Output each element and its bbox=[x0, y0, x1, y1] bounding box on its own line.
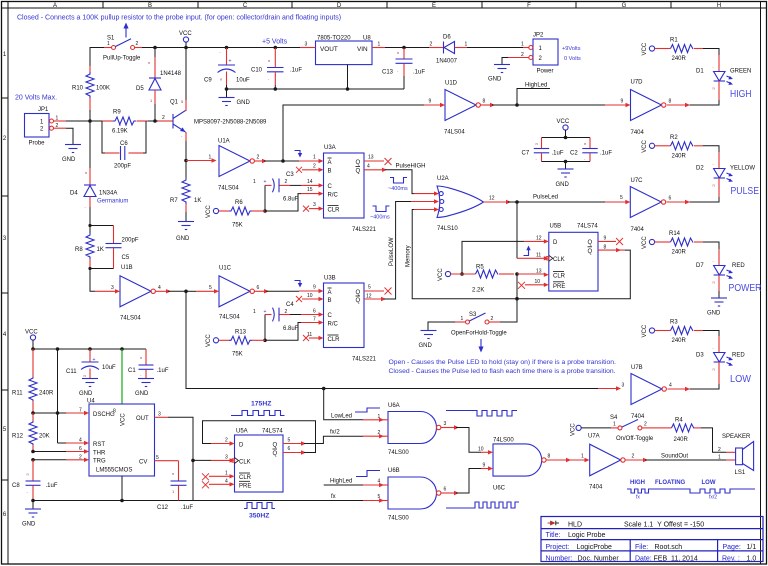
svg-text:~400ms: ~400ms bbox=[370, 215, 390, 221]
wire U1A out up and to U1D input bbox=[283, 105, 424, 161]
svg-text:GND: GND bbox=[176, 236, 190, 242]
svg-text:VCC: VCC bbox=[179, 31, 192, 37]
svg-text:Q: Q bbox=[356, 290, 361, 296]
svg-text:+: + bbox=[264, 179, 267, 185]
waveform 175HZ bbox=[231, 411, 285, 416]
svg-text:74LS74: 74LS74 bbox=[262, 429, 283, 435]
svg-text:fx/2: fx/2 bbox=[330, 430, 340, 436]
svg-text:6: 6 bbox=[288, 446, 291, 452]
wire S1 pin1 to R10 top bbox=[90, 48, 111, 72]
svg-text:Probe: Probe bbox=[29, 141, 46, 147]
svg-text:2: 2 bbox=[79, 454, 82, 460]
svg-text:0 Volts: 0 Volts bbox=[564, 56, 581, 62]
svg-text:4: 4 bbox=[158, 285, 161, 291]
inverter U7D 7404 bbox=[621, 80, 672, 137]
svg-text:200pF: 200pF bbox=[122, 238, 139, 244]
wire C3 pin2 to U3A pin C bbox=[290, 184, 301, 186]
power flag VCC at 555 bbox=[25, 330, 38, 350]
resistor R13 75K bbox=[219, 330, 265, 358]
svg-text:7404: 7404 bbox=[631, 227, 645, 233]
junction R5 to CLR bbox=[515, 272, 519, 276]
svg-text:R1: R1 bbox=[670, 38, 678, 44]
svg-text:1: 1 bbox=[378, 414, 381, 420]
ground under C8 bbox=[22, 501, 41, 528]
svg-text:Q1: Q1 bbox=[170, 100, 179, 106]
no-connect X at U5B PRE bbox=[518, 282, 525, 289]
svg-text:6: 6 bbox=[313, 309, 316, 315]
wire 7805 gnd pin down bbox=[347, 65, 349, 89]
svg-text:GND: GND bbox=[707, 311, 721, 317]
svg-text:1: 1 bbox=[613, 422, 616, 428]
svg-text:74LS00: 74LS00 bbox=[388, 516, 409, 522]
svg-text:74LS00: 74LS00 bbox=[388, 450, 409, 456]
svg-text:1.0: 1.0 bbox=[747, 555, 757, 562]
svg-text:U7C: U7C bbox=[631, 178, 644, 184]
svg-text:C2: C2 bbox=[570, 151, 578, 157]
svg-text:1: 1 bbox=[253, 309, 256, 315]
wire U5A Q to fx/2 bbox=[283, 443, 303, 445]
wire U3B Qbar to U2A pin2 bbox=[364, 298, 383, 300]
net label HighLed bbox=[517, 83, 550, 106]
ground under C7/C2 bbox=[556, 162, 574, 189]
svg-text:240R: 240R bbox=[39, 391, 54, 397]
resistor R10 bbox=[72, 66, 110, 112]
diode D5 1N4148 bbox=[136, 48, 182, 122]
svg-text:Q: Q bbox=[356, 298, 361, 304]
svg-text:4: 4 bbox=[669, 383, 672, 389]
svg-text:H: H bbox=[717, 3, 721, 9]
wire PulseLed into U7C bbox=[605, 201, 627, 203]
wire into U7D input bbox=[605, 104, 627, 106]
resistor R4 240R bbox=[656, 418, 701, 444]
wire THR bbox=[31, 450, 35, 454]
svg-text:VCC: VCC bbox=[642, 42, 648, 55]
junction C13 top bbox=[402, 46, 406, 50]
svg-text:R6: R6 bbox=[235, 200, 243, 206]
svg-text:9: 9 bbox=[313, 285, 316, 291]
power flag VCC at S4 bbox=[571, 423, 582, 436]
svg-text:1/1: 1/1 bbox=[747, 544, 757, 551]
timer U4 LM555CMOS bbox=[79, 399, 179, 477]
svg-text:9: 9 bbox=[429, 99, 432, 105]
svg-text:B: B bbox=[148, 3, 152, 9]
resistor R9 bbox=[102, 110, 148, 135]
svg-text:GND: GND bbox=[135, 391, 149, 397]
svg-text:C13: C13 bbox=[382, 70, 394, 76]
svg-text:175HZ: 175HZ bbox=[251, 401, 271, 408]
svg-text:n: n bbox=[397, 50, 399, 55]
svg-text:6: 6 bbox=[669, 196, 672, 202]
svg-text:.1uF: .1uF bbox=[600, 151, 612, 157]
svg-text:LOW: LOW bbox=[702, 480, 716, 486]
svg-text:6: 6 bbox=[444, 487, 447, 493]
svg-text:3: 3 bbox=[305, 42, 308, 48]
svg-text:10uF: 10uF bbox=[236, 78, 250, 84]
svg-text:VCC: VCC bbox=[438, 268, 444, 281]
power flag VCC at R5 bbox=[438, 268, 451, 281]
capacitor C3 6.8uF bbox=[253, 172, 299, 203]
svg-text:HighLed: HighLed bbox=[330, 479, 352, 485]
svg-text:B: B bbox=[328, 169, 332, 175]
svg-text:10: 10 bbox=[478, 446, 484, 452]
svg-text:6.8uF: 6.8uF bbox=[283, 197, 299, 203]
svg-text:+: + bbox=[229, 59, 232, 65]
svg-text:1: 1 bbox=[253, 179, 256, 185]
svg-text:12: 12 bbox=[536, 236, 542, 242]
power flag VCC at R13 bbox=[206, 334, 219, 347]
junction gnd rail bbox=[225, 87, 229, 91]
diode D4 1N34A bbox=[70, 168, 128, 209]
svg-text:240R: 240R bbox=[674, 437, 689, 443]
resistor R14 240R bbox=[655, 231, 703, 256]
wire gnd rail under regulator bbox=[227, 88, 405, 90]
svg-text:Closed - Causes the Pulse led: Closed - Causes the Pulse led to flash e… bbox=[389, 368, 616, 375]
svg-text:D7: D7 bbox=[696, 263, 704, 269]
inverter U7C 7404 bbox=[630, 178, 671, 233]
switch S1 bbox=[103, 36, 142, 62]
ground under C9 bbox=[219, 89, 251, 106]
svg-text:6.19K: 6.19K bbox=[112, 129, 128, 135]
svg-text:CLK: CLK bbox=[239, 459, 251, 465]
svg-text:4: 4 bbox=[225, 478, 228, 484]
svg-text:Number:: Number: bbox=[546, 555, 573, 562]
svg-text:2: 2 bbox=[632, 454, 635, 460]
wire emitter node to U1A bbox=[186, 160, 213, 162]
svg-text:A: A bbox=[328, 160, 332, 166]
svg-text:75K: 75K bbox=[232, 223, 243, 229]
junction VCC rail bbox=[184, 46, 188, 50]
svg-text:.1uF: .1uF bbox=[552, 151, 564, 157]
no-connect X at U3A CLR bbox=[303, 206, 309, 212]
wire 555 gnd pin down bbox=[121, 476, 123, 501]
svg-text:VOUT: VOUT bbox=[320, 46, 338, 53]
svg-text:Memory: Memory bbox=[406, 245, 412, 267]
svg-text:DSCHG: DSCHG bbox=[93, 412, 115, 418]
svg-text:Logic Probe: Logic Probe bbox=[568, 532, 605, 539]
wire bottom rail bbox=[33, 500, 193, 502]
svg-text:74LS04: 74LS04 bbox=[219, 315, 240, 321]
svg-text:350HZ: 350HZ bbox=[249, 513, 269, 520]
svg-text:9: 9 bbox=[483, 463, 486, 469]
resistor R2 240R bbox=[655, 135, 703, 160]
svg-text:Q: Q bbox=[588, 240, 593, 246]
svg-text:2: 2 bbox=[491, 316, 494, 322]
svg-text:74LS221: 74LS221 bbox=[352, 227, 377, 233]
svg-text:VIN: VIN bbox=[357, 46, 368, 53]
capacitor C11 10uF bbox=[66, 349, 116, 378]
svg-text:10: 10 bbox=[307, 293, 313, 299]
svg-text:Power: Power bbox=[537, 69, 554, 75]
gate U6A 74LS00 bbox=[382, 403, 447, 456]
svg-text:74LS00: 74LS00 bbox=[493, 438, 514, 444]
svg-text:CLR: CLR bbox=[328, 208, 341, 214]
svg-text:n: n bbox=[713, 280, 715, 285]
svg-text:74LS221: 74LS221 bbox=[352, 357, 377, 363]
ground under D7 bbox=[707, 291, 727, 317]
svg-text:LOW: LOW bbox=[730, 374, 751, 385]
svg-text:C6: C6 bbox=[120, 141, 128, 147]
svg-text:D2: D2 bbox=[696, 166, 704, 172]
wire down to S3 pin2 bbox=[500, 274, 517, 322]
svg-text:CV: CV bbox=[139, 459, 147, 465]
svg-text:7: 7 bbox=[79, 408, 82, 414]
svg-text:SPEAKER: SPEAKER bbox=[722, 434, 751, 440]
svg-text:2: 2 bbox=[718, 447, 721, 453]
svg-text:n: n bbox=[713, 183, 715, 188]
net fx to U6B pin5 bbox=[193, 500, 363, 502]
svg-text:PULSE: PULSE bbox=[731, 186, 760, 197]
svg-text:Title:: Title: bbox=[546, 532, 561, 539]
wire CLK to U5A bbox=[193, 459, 211, 461]
svg-text:7: 7 bbox=[313, 317, 316, 323]
waveform at U6B bbox=[446, 502, 519, 508]
no-connect X at U5A CLR bbox=[202, 473, 209, 480]
svg-text:5: 5 bbox=[209, 285, 212, 291]
svg-text:U2A: U2A bbox=[437, 176, 449, 182]
svg-text:14: 14 bbox=[307, 179, 313, 185]
svg-text:D1: D1 bbox=[696, 69, 704, 75]
svg-text:10uF: 10uF bbox=[102, 365, 116, 371]
wire C7/C2 bottom rail bbox=[542, 161, 591, 163]
svg-text:fx: fx bbox=[636, 495, 640, 501]
no-connect X at U5B Q bbox=[598, 240, 616, 242]
svg-text:MPS8097-2N5088-2N5089: MPS8097-2N5088-2N5089 bbox=[194, 120, 267, 126]
svg-text:4: 4 bbox=[367, 164, 370, 170]
capacitor C7 .1uF bbox=[522, 138, 564, 162]
svg-text:1N4148: 1N4148 bbox=[160, 71, 182, 77]
svg-text:PRE: PRE bbox=[239, 483, 251, 489]
svg-text:Q: Q bbox=[273, 442, 278, 448]
capacitor C1 .1uF bbox=[128, 349, 169, 378]
gate U6B 74LS00 bbox=[382, 468, 447, 522]
svg-text:6.8uF: 6.8uF bbox=[283, 326, 299, 332]
svg-text:HIGH: HIGH bbox=[730, 89, 752, 100]
power flag VCC top bbox=[179, 31, 192, 48]
wire U7A out SoundOut to speaker bbox=[625, 459, 645, 461]
inverter U1C 74LS04 bbox=[209, 266, 260, 321]
svg-text:1: 1 bbox=[209, 155, 212, 161]
flipflop U5A 74LS74 bbox=[225, 429, 291, 493]
svg-text:R11: R11 bbox=[12, 391, 23, 397]
LED D7 bbox=[696, 249, 745, 291]
wire U6C out to U7A bbox=[546, 459, 568, 461]
svg-text:1N4007: 1N4007 bbox=[436, 59, 458, 65]
svg-text:4: 4 bbox=[79, 438, 82, 444]
svg-text:VCC: VCC bbox=[25, 330, 38, 336]
wire R4 to speaker pin2 bbox=[701, 428, 726, 452]
svg-text:2: 2 bbox=[313, 164, 316, 170]
svg-text:3: 3 bbox=[225, 455, 228, 461]
svg-text:+9Volts: +9Volts bbox=[562, 46, 581, 52]
wire probe node down to D4 bbox=[89, 121, 91, 168]
svg-text:CLR: CLR bbox=[328, 337, 341, 343]
svg-text:GND: GND bbox=[556, 182, 570, 188]
svg-text:LowLed: LowLed bbox=[331, 413, 352, 419]
svg-text:15: 15 bbox=[307, 187, 313, 193]
arrow below S3 bbox=[478, 339, 483, 353]
svg-text:F: F bbox=[527, 3, 531, 9]
power flag VCC at R14 bbox=[642, 236, 655, 249]
svg-text:Q: Q bbox=[356, 160, 361, 166]
resistor R12 20K bbox=[12, 413, 50, 452]
svg-text:n: n bbox=[584, 141, 586, 146]
svg-text:C11: C11 bbox=[66, 369, 77, 375]
wire C3 pin1 down to R6 node bbox=[264, 185, 266, 211]
speaker LS1 bbox=[718, 434, 754, 476]
svg-text:VCC: VCC bbox=[206, 334, 212, 347]
wire PulseHIGH into U2A pin1 bbox=[414, 193, 436, 195]
svg-text:VCC: VCC bbox=[642, 236, 648, 249]
monostable U3B 74LS221 bbox=[307, 276, 377, 363]
svg-text:Doc. Number: Doc. Number bbox=[578, 555, 620, 562]
edge arrow at U3B pin A bbox=[295, 281, 303, 288]
svg-text:On/Off-Toggle: On/Off-Toggle bbox=[616, 436, 654, 442]
waveform at U6A bbox=[446, 411, 517, 417]
svg-text:GND: GND bbox=[62, 157, 76, 163]
svg-text:3: 3 bbox=[622, 383, 625, 389]
wire D6 to JP2 bbox=[467, 47, 523, 49]
svg-text:fx/2: fx/2 bbox=[709, 495, 717, 501]
wire R8 node to U1B bbox=[90, 269, 95, 292]
svg-text:GND: GND bbox=[79, 391, 93, 397]
svg-text:1: 1 bbox=[465, 42, 468, 48]
svg-text:1: 1 bbox=[521, 42, 524, 48]
svg-text:PulseLed: PulseLed bbox=[533, 195, 558, 201]
power flag VCC at R2 bbox=[642, 139, 655, 152]
svg-text:D: D bbox=[239, 442, 244, 448]
svg-text:Root.sch: Root.sch bbox=[655, 544, 683, 551]
svg-text:3: 3 bbox=[444, 421, 447, 427]
svg-text:C5: C5 bbox=[122, 255, 130, 261]
svg-text:74LS10: 74LS10 bbox=[437, 226, 458, 232]
svg-text:.1uF: .1uF bbox=[157, 368, 169, 374]
net HighLed to U6B pin4 bbox=[324, 484, 363, 486]
svg-text:C1: C1 bbox=[128, 368, 136, 374]
diode D6 1N4007 bbox=[429, 35, 468, 65]
wire VIN to D6 bbox=[385, 47, 429, 49]
inverter U1A 74LS04 bbox=[209, 139, 260, 192]
svg-text:.1uF: .1uF bbox=[413, 70, 425, 76]
svg-text:U7D: U7D bbox=[631, 80, 644, 86]
svg-text:1: 1 bbox=[107, 41, 110, 47]
LED D2 bbox=[696, 152, 755, 197]
wire Memory net to U2A pin13 bbox=[412, 210, 517, 299]
svg-text:6: 6 bbox=[257, 285, 260, 291]
ground at JP2 pin2 bbox=[488, 58, 510, 83]
power flag VCC at R3 bbox=[642, 324, 655, 337]
svg-text:240R: 240R bbox=[672, 338, 687, 344]
step symbol at HighLed bbox=[356, 471, 380, 477]
capacitor C4 6.8uF bbox=[253, 302, 299, 332]
svg-text:n: n bbox=[148, 60, 150, 65]
capacitor C10 .1uF bbox=[251, 48, 302, 89]
svg-text:8: 8 bbox=[483, 99, 486, 105]
wire OUT to fx net bbox=[168, 417, 193, 500]
svg-text:R/C: R/C bbox=[328, 192, 339, 198]
svg-text:C7: C7 bbox=[522, 151, 530, 157]
svg-text:PullUp-Toggle: PullUp-Toggle bbox=[103, 56, 141, 62]
svg-text:Q: Q bbox=[273, 451, 278, 457]
svg-text:File:: File: bbox=[635, 544, 648, 551]
svg-text:GND: GND bbox=[419, 343, 433, 349]
arrow above S1 bbox=[123, 23, 128, 38]
monostable U3A 74LS221 bbox=[307, 145, 377, 233]
connector JP2 bbox=[508, 33, 558, 75]
power flag VCC at R6 bbox=[206, 205, 219, 218]
ground under C1 bbox=[135, 379, 154, 398]
svg-text:CLR: CLR bbox=[553, 274, 566, 280]
svg-text:1: 1 bbox=[313, 155, 316, 161]
svg-text:2: 2 bbox=[225, 438, 228, 444]
svg-text:D3: D3 bbox=[696, 353, 704, 359]
svg-text:74LS74: 74LS74 bbox=[577, 224, 598, 230]
svg-text:A: A bbox=[53, 3, 57, 9]
svg-text:6: 6 bbox=[79, 446, 82, 452]
svg-text:1: 1 bbox=[581, 454, 584, 460]
svg-text:n: n bbox=[172, 471, 174, 476]
svg-text:VCC: VCC bbox=[571, 423, 577, 436]
svg-text:2: 2 bbox=[378, 430, 381, 436]
svg-text:GREEN: GREEN bbox=[730, 69, 751, 75]
svg-text:100K: 100K bbox=[96, 86, 110, 92]
wire U5A D loop from Qbar bbox=[283, 452, 303, 454]
svg-text:240R: 240R bbox=[672, 153, 687, 159]
svg-text:7404: 7404 bbox=[631, 130, 645, 136]
svg-text:Project:: Project: bbox=[546, 544, 570, 551]
svg-text:U6B: U6B bbox=[388, 468, 400, 474]
svg-text:20K: 20K bbox=[39, 434, 50, 440]
power flag VCC at C7/C2 bbox=[557, 119, 570, 138]
ground under C11 bbox=[79, 379, 98, 398]
junction C9 top bbox=[225, 46, 229, 50]
ground at S3 pin1 bbox=[419, 322, 456, 349]
svg-text:C4: C4 bbox=[286, 302, 294, 308]
svg-text:n: n bbox=[536, 141, 538, 146]
svg-text:7404: 7404 bbox=[589, 485, 603, 491]
svg-text:D4: D4 bbox=[70, 191, 78, 197]
wire U5B Qbar to S3/Memory bbox=[598, 249, 625, 251]
svg-text:C9: C9 bbox=[204, 78, 212, 84]
waveform 350HZ bbox=[244, 503, 275, 509]
wire U1A output to junction bbox=[254, 160, 264, 162]
svg-text:R10: R10 bbox=[72, 86, 84, 92]
wire R10 bottom to probe node bbox=[89, 110, 91, 121]
no-connect X at U3B Q bbox=[364, 290, 384, 292]
LED D1 bbox=[696, 55, 751, 100]
svg-text:9: 9 bbox=[604, 236, 607, 242]
svg-text:RST: RST bbox=[93, 442, 105, 448]
switch S4 bbox=[610, 415, 656, 442]
svg-text:JP1: JP1 bbox=[38, 107, 49, 113]
svg-text:n: n bbox=[27, 472, 29, 477]
svg-text:2.2K: 2.2K bbox=[472, 288, 484, 294]
svg-text:Rev. :: Rev. : bbox=[722, 555, 740, 562]
wire U1B out to U1C in bbox=[155, 290, 168, 292]
svg-text:FLOATING: FLOATING bbox=[655, 480, 686, 486]
capacitor C12 .1uF bbox=[157, 461, 193, 511]
wire LowLed net long run to U7B bbox=[186, 291, 618, 388]
ground under R7 bbox=[176, 212, 194, 242]
inverter U7A 7404 bbox=[588, 434, 635, 491]
wire VCC to S4 bbox=[581, 427, 611, 429]
svg-text:U3B: U3B bbox=[324, 276, 336, 282]
inverter U1B 74LS04 bbox=[95, 265, 161, 322]
connector JP1 bbox=[25, 107, 67, 147]
svg-text:LogicProbe: LogicProbe bbox=[577, 544, 613, 551]
svg-text:Page:: Page: bbox=[723, 544, 741, 551]
wire R6 node to R/C pin bbox=[265, 194, 301, 211]
svg-text:240R: 240R bbox=[672, 56, 687, 62]
